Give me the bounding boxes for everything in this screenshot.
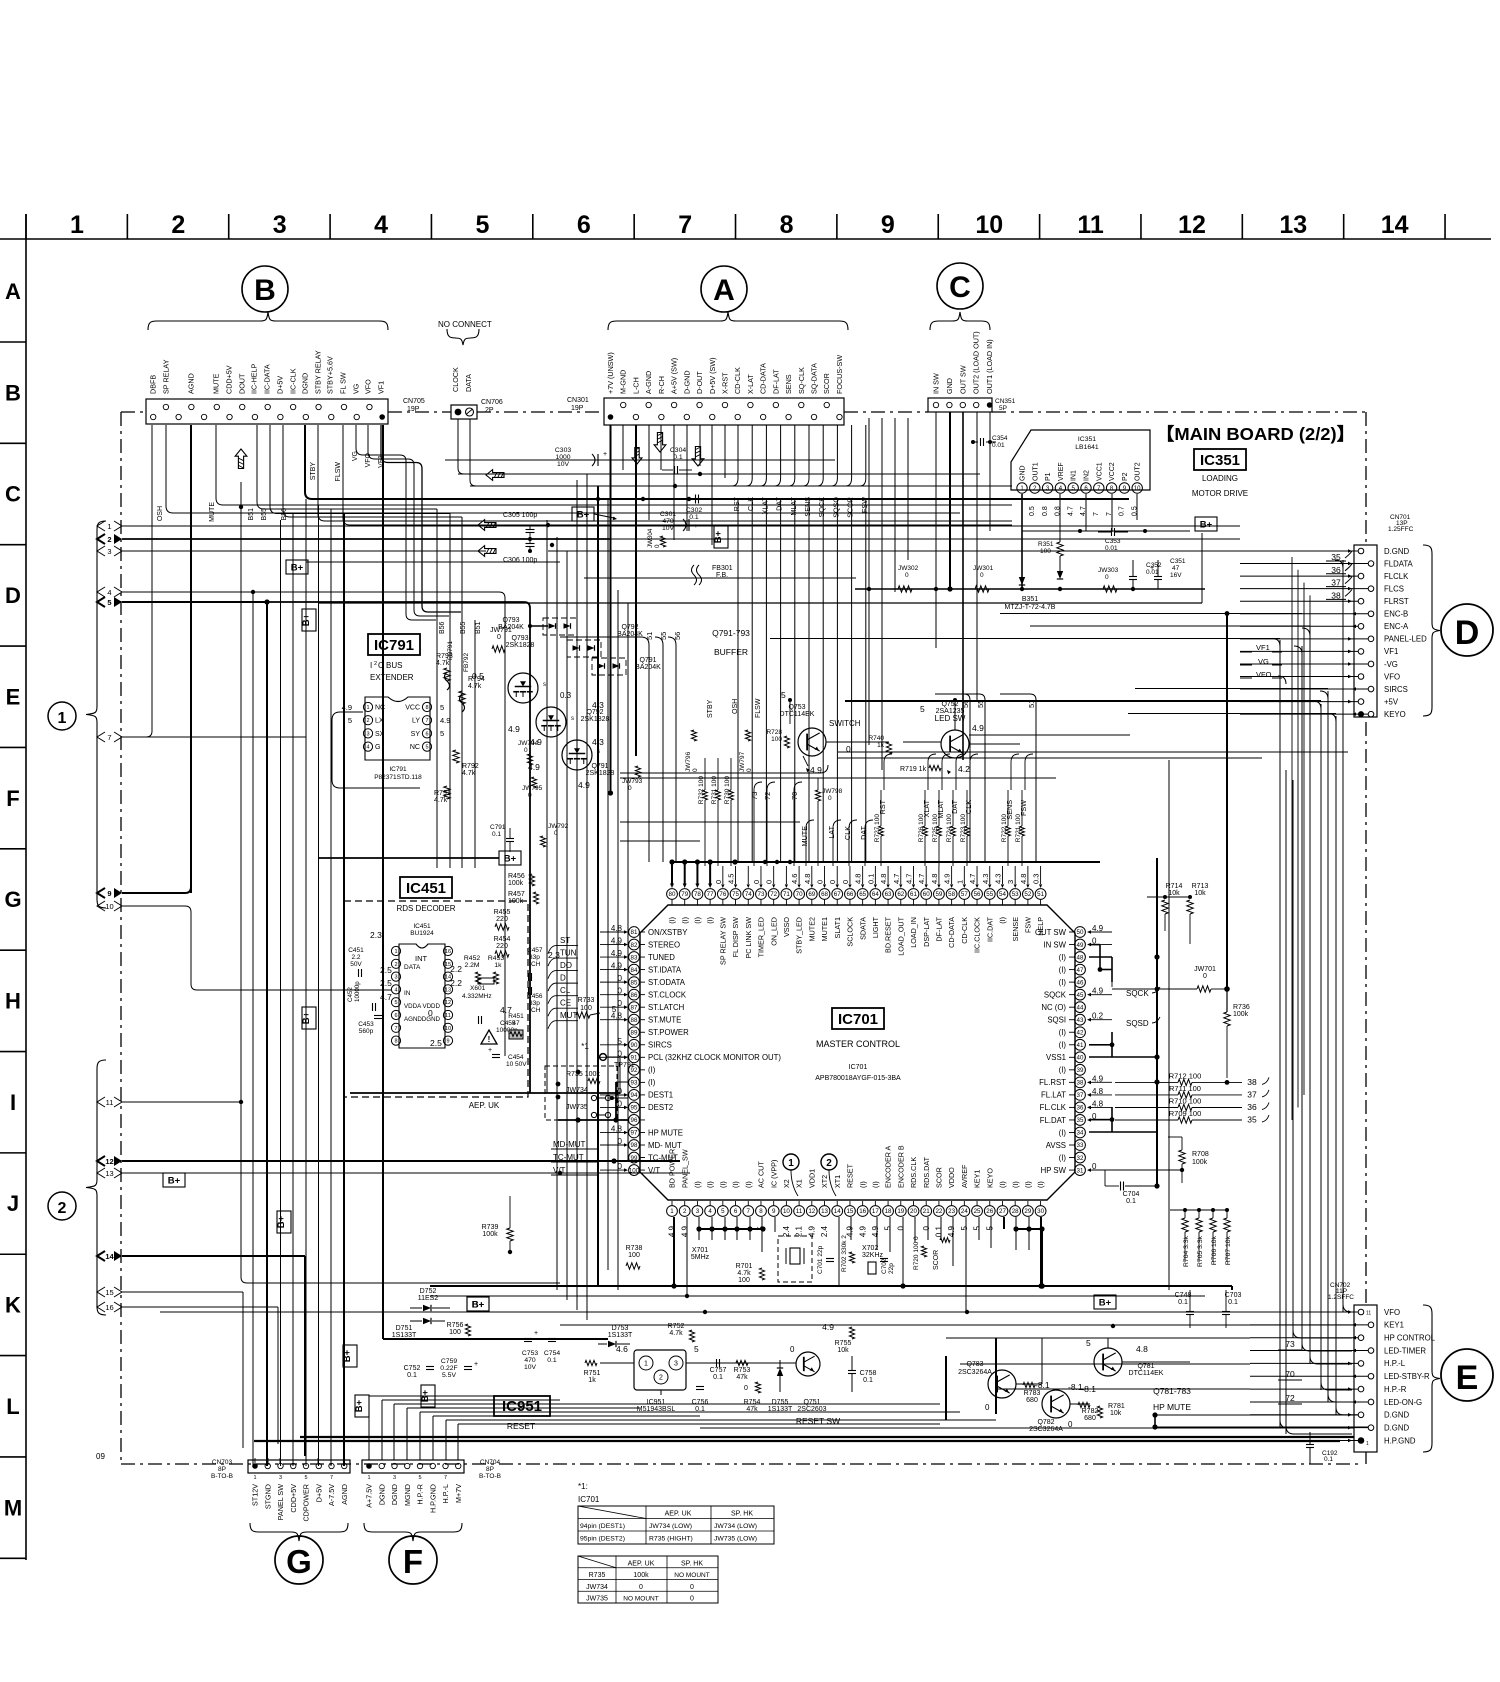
svg-text:CLK: CLK [843, 826, 852, 840]
connector CN701 [1354, 545, 1377, 717]
svg-text:C703: C703 [1225, 1292, 1242, 1299]
svg-text:SENS: SENS [1005, 800, 1014, 820]
svg-text:0.1: 0.1 [1126, 1198, 1136, 1205]
svg-text:HP MUTE: HP MUTE [648, 1128, 683, 1137]
svg-text:DTC114EK: DTC114EK [1129, 1370, 1164, 1377]
svg-text:7: 7 [107, 733, 111, 742]
svg-text:560p: 560p [359, 1028, 374, 1035]
svg-text:18: 18 [885, 1208, 892, 1215]
svg-text:K: K [5, 1293, 21, 1318]
svg-text:LIGHT: LIGHT [871, 916, 880, 938]
wire long horizontals 752 758 [838, 751, 1348, 753]
svg-text:CLK: CLK [964, 800, 973, 814]
svg-text:0.1: 0.1 [547, 1357, 557, 1364]
svg-text:(I): (I) [1059, 1041, 1067, 1050]
svg-text:12: 12 [105, 1157, 113, 1166]
wire D row horizontals [838, 550, 1358, 552]
svg-text:(I): (I) [1059, 1028, 1067, 1037]
svg-text:FL.CLK: FL.CLK [1040, 1103, 1067, 1112]
svg-text:BU1924: BU1924 [410, 930, 434, 937]
svg-text:R451: R451 [508, 1013, 524, 1020]
svg-text:0: 0 [639, 1584, 643, 1591]
svg-text:R752: R752 [668, 1323, 685, 1330]
wire E connector stubs [1250, 1311, 1358, 1313]
svg-text:R-CH: R-CH [657, 376, 666, 394]
wire buffer out verticals 51 55 56 [648, 645, 650, 862]
svg-text:680: 680 [1026, 1397, 1038, 1404]
svg-text:(I): (I) [858, 1181, 867, 1188]
wire IC451 bold nets [529, 1040, 531, 1093]
svg-text:4.9: 4.9 [943, 874, 952, 884]
svg-text:4.7: 4.7 [904, 874, 913, 884]
svg-text:DSP-LAT: DSP-LAT [922, 916, 931, 946]
wire top right verticals [868, 418, 870, 745]
svg-text:ST.LATCH: ST.LATCH [648, 1003, 684, 1012]
svg-text:DOUT: DOUT [238, 373, 247, 394]
svg-text:HP SW: HP SW [1041, 1166, 1067, 1175]
resistor bank R704-R707 [1182, 1218, 1188, 1232]
svg-text:1k: 1k [494, 962, 502, 969]
B+ box reset [467, 1297, 489, 1311]
svg-text:CL: CL [560, 986, 571, 995]
svg-text:2SC3264A: 2SC3264A [1029, 1426, 1063, 1433]
svg-text:6: 6 [577, 211, 591, 239]
svg-text:69: 69 [808, 891, 815, 898]
svg-text:1: 1 [1366, 1441, 1369, 1447]
svg-text:57: 57 [961, 891, 968, 898]
svg-text:100k: 100k [508, 898, 524, 905]
svg-text:MUT: MUT [560, 1011, 577, 1020]
svg-text:RDS.DAT: RDS.DAT [922, 1156, 931, 1188]
svg-text:D-OUT: D-OUT [695, 371, 704, 394]
wire IC351 pins down [1021, 494, 1023, 589]
svg-text:NO MOUNT: NO MOUNT [674, 1572, 709, 1579]
svg-text:85: 85 [631, 979, 638, 986]
svg-text:7: 7 [330, 1475, 333, 1481]
svg-text:MUTE: MUTE [800, 826, 809, 847]
svg-text:IN2: IN2 [1084, 470, 1091, 481]
node arrow 4 [97, 587, 105, 597]
svg-text:16: 16 [445, 949, 451, 955]
svg-text:16V: 16V [1170, 572, 1182, 579]
svg-text:IC451: IC451 [413, 923, 431, 930]
svg-text:60: 60 [923, 891, 930, 898]
svg-text:4: 4 [708, 1208, 712, 1215]
node arrow 7 [97, 732, 105, 742]
svg-text:2: 2 [374, 661, 377, 667]
svg-text:5: 5 [440, 703, 444, 712]
svg-text:(I): (I) [668, 917, 677, 924]
svg-text:IC (VPP): IC (VPP) [769, 1160, 778, 1188]
svg-text:IC701: IC701 [838, 1011, 878, 1028]
svg-text:0: 0 [841, 880, 850, 884]
svg-text:SCOR: SCOR [846, 497, 855, 518]
svg-text:MTZJ-T-72-4.7B: MTZJ-T-72-4.7B [1005, 604, 1056, 611]
svg-text:2: 2 [659, 1375, 663, 1382]
svg-text:CN706: CN706 [481, 399, 503, 406]
svg-text:13: 13 [105, 1169, 113, 1178]
svg-text:10: 10 [105, 902, 113, 911]
wire top pins bold rail [672, 861, 1100, 863]
svg-text:1.25FFC: 1.25FFC [1388, 526, 1414, 533]
svg-text:XT2: XT2 [820, 1175, 829, 1188]
svg-text:16: 16 [105, 1303, 113, 1312]
svg-text:7: 7 [1093, 512, 1100, 516]
wire VG VFO VF1 corners down [390, 454, 400, 456]
svg-text:5: 5 [348, 716, 352, 725]
connector CN702 [1354, 1305, 1377, 1452]
B+ box [163, 1173, 185, 1187]
svg-text:78: 78 [694, 891, 701, 898]
svg-text:RDS DECODER: RDS DECODER [396, 904, 455, 913]
svg-text:1: 1 [366, 705, 369, 711]
svg-text:26: 26 [986, 1208, 993, 1215]
svg-text:2.2: 2.2 [450, 964, 462, 974]
svg-text:55: 55 [986, 891, 993, 898]
wire riser CN703-2 bold [266, 602, 268, 1466]
svg-text:5MHz: 5MHz [691, 1254, 710, 1261]
svg-text:+7V (UNSW): +7V (UNSW) [606, 352, 615, 394]
svg-text:5: 5 [694, 1344, 699, 1354]
svg-text:R727 100: R727 100 [874, 814, 881, 843]
svg-text:CN705: CN705 [403, 398, 425, 405]
IC351 pins [1017, 483, 1027, 493]
svg-text:STEREO: STEREO [648, 940, 680, 949]
svg-text:R705 3.3k: R705 3.3k [1197, 1235, 1204, 1267]
svg-text:5.5V: 5.5V [442, 1372, 456, 1379]
svg-text:VDD1: VDD1 [807, 1169, 816, 1188]
svg-text:70: 70 [796, 891, 803, 898]
svg-text:JW797: JW797 [739, 751, 746, 772]
svg-text:37: 37 [1247, 1089, 1257, 1099]
svg-text:H.P.-R: H.P.-R [1384, 1385, 1407, 1394]
svg-text:VFO: VFO [364, 379, 373, 394]
svg-text:*1: *1 [581, 1042, 589, 1051]
svg-text:D+5V (SW): D+5V (SW) [708, 357, 717, 394]
svg-text:+: + [603, 451, 607, 458]
svg-text:XT1: XT1 [833, 1175, 842, 1188]
wire mid horizontals [620, 772, 820, 774]
svg-text:2: 2 [366, 718, 369, 724]
svg-text:84: 84 [631, 967, 638, 974]
svg-text:R712 100: R712 100 [1169, 1071, 1202, 1080]
svg-text:95: 95 [631, 1105, 638, 1112]
svg-text:IN SW: IN SW [1043, 940, 1066, 949]
svg-text:B51: B51 [248, 508, 255, 521]
wire IC701 bottom drops [673, 1217, 675, 1286]
svg-text:4.5: 4.5 [727, 874, 736, 884]
svg-text:6: 6 [425, 731, 428, 737]
svg-text:CE: CE [560, 999, 571, 1008]
svg-text:APB780018AYGF-015-3BA: APB780018AYGF-015-3BA [815, 1075, 901, 1082]
IC701 bottom pins 1-30 [667, 1206, 678, 1217]
svg-text:FL.RST: FL.RST [1039, 1078, 1066, 1087]
svg-text:ON/XSTBY: ON/XSTBY [648, 928, 688, 937]
zener diode D352 [1019, 577, 1025, 585]
svg-text:33: 33 [1077, 1142, 1084, 1149]
svg-text:DF-LAT: DF-LAT [771, 369, 780, 394]
svg-text:(I): (I) [1059, 1066, 1067, 1075]
svg-text:BD.RESET: BD.RESET [884, 916, 893, 953]
svg-text:31: 31 [1077, 1167, 1084, 1174]
svg-text:P1: P1 [1045, 472, 1052, 481]
board outline dash-dot left [120, 412, 122, 1464]
svg-text:8: 8 [759, 1208, 763, 1215]
svg-text:220: 220 [496, 943, 508, 950]
wire IC701 top pin stubs [671, 862, 673, 884]
svg-text:IC701: IC701 [849, 1064, 868, 1071]
svg-text:C354: C354 [992, 435, 1008, 442]
IC451 chip body [399, 944, 445, 1048]
svg-text:VCC1: VCC1 [1096, 462, 1103, 481]
svg-text:0: 0 [497, 634, 501, 641]
svg-text:64: 64 [872, 891, 879, 898]
wire bus vertical 191 bold [190, 425, 192, 893]
svg-text:R724 100: R724 100 [946, 814, 953, 843]
board outline dash-dot top segments [121, 411, 146, 413]
svg-text:0: 0 [524, 747, 528, 754]
svg-text:15: 15 [105, 1288, 113, 1297]
svg-text:4.9: 4.9 [680, 1225, 689, 1237]
B+ box vertical [343, 1345, 357, 1367]
svg-text:10: 10 [975, 211, 1003, 239]
svg-text:EXTENDER: EXTENDER [370, 673, 414, 682]
svg-text:R711 100: R711 100 [1169, 1084, 1201, 1093]
svg-text:LOADING: LOADING [1202, 474, 1238, 483]
svg-text:CN351: CN351 [995, 398, 1016, 405]
svg-text:FL SW: FL SW [339, 372, 348, 394]
diode pack Q791 BA204K [592, 658, 626, 675]
svg-text:D751: D751 [396, 1325, 413, 1332]
svg-text:LOAD_OUT: LOAD_OUT [896, 916, 905, 955]
svg-text:H.P.-R: H.P.-R [416, 1484, 425, 1505]
svg-text:63: 63 [885, 891, 892, 898]
svg-text:56: 56 [961, 700, 970, 708]
svg-text:4.6: 4.6 [790, 874, 799, 884]
IC791 label box [368, 634, 420, 655]
svg-text:CLK: CLK [746, 497, 755, 511]
svg-text:4: 4 [366, 745, 369, 751]
svg-text:Q793: Q793 [511, 635, 528, 642]
svg-text:100k: 100k [633, 1572, 649, 1579]
svg-text:4.7k: 4.7k [434, 797, 448, 804]
svg-text:6: 6 [394, 1013, 397, 1019]
svg-text:7: 7 [747, 1208, 751, 1215]
svg-text:5: 5 [973, 1225, 982, 1230]
svg-text:(I): (I) [1011, 1181, 1020, 1188]
svg-text:F: F [6, 786, 19, 811]
svg-text:RESET: RESET [507, 1421, 535, 1431]
svg-text:L-CH: L-CH [631, 377, 640, 394]
svg-text:2.1: 2.1 [795, 1225, 804, 1237]
svg-text:4.9: 4.9 [508, 724, 520, 734]
svg-text:43: 43 [1077, 1017, 1084, 1024]
svg-text:MOTOR DRIVE: MOTOR DRIVE [1192, 489, 1248, 498]
svg-text:(I): (I) [1059, 1128, 1067, 1137]
svg-text:1.2SFFC: 1.2SFFC [1328, 1294, 1354, 1301]
svg-text:JW701: JW701 [1194, 966, 1216, 973]
svg-text:71: 71 [783, 891, 790, 898]
svg-text:R707 10k: R707 10k [1225, 1235, 1232, 1265]
svg-text:67: 67 [834, 891, 841, 898]
svg-text:59: 59 [935, 891, 942, 898]
svg-text:41: 41 [1077, 1042, 1084, 1049]
svg-text:IN SW: IN SW [932, 373, 941, 394]
svg-text:KEY1: KEY1 [1384, 1321, 1404, 1330]
svg-text:SCLOCK: SCLOCK [846, 917, 855, 947]
svg-text:+: + [534, 1330, 538, 1337]
svg-text:R704 3.3k: R704 3.3k [1183, 1235, 1190, 1267]
svg-text:20: 20 [910, 1208, 917, 1215]
IC451 left pins [391, 946, 400, 955]
svg-text:220: 220 [496, 916, 508, 923]
svg-text:DATA: DATA [464, 374, 473, 392]
wire lower horizontals [700, 1427, 1354, 1429]
svg-text:R723 100: R723 100 [960, 814, 967, 843]
svg-text:10k: 10k [1110, 1410, 1122, 1417]
svg-text:CN301: CN301 [567, 397, 589, 404]
svg-text:OUT1: OUT1 [1032, 462, 1039, 481]
svg-text:0: 0 [744, 1385, 748, 1392]
svg-text:10000p: 10000p [354, 981, 361, 1002]
svg-text:A-GND: A-GND [644, 371, 653, 394]
svg-text:7: 7 [444, 1475, 447, 1481]
svg-text:R351: R351 [1038, 541, 1054, 548]
svg-text:0: 0 [985, 1403, 990, 1412]
svg-text:4.7: 4.7 [1067, 506, 1074, 516]
svg-text:C758: C758 [860, 1370, 877, 1377]
svg-text:Q782: Q782 [1037, 1419, 1054, 1426]
svg-text:C: C [949, 271, 971, 304]
svg-text:IC451: IC451 [406, 880, 446, 897]
svg-text:13: 13 [1279, 211, 1307, 239]
svg-text:40: 40 [1077, 1055, 1084, 1062]
svg-text:53: 53 [1012, 891, 1019, 898]
svg-text:4.3: 4.3 [993, 874, 1002, 884]
svg-text:R792: R792 [462, 763, 479, 770]
svg-text:23: 23 [948, 1208, 955, 1215]
section label B [242, 266, 288, 312]
wire Q752 Q753 links [826, 741, 889, 743]
svg-text:R753: R753 [734, 1367, 751, 1374]
svg-text:(I): (I) [1023, 1181, 1032, 1188]
svg-text:9: 9 [107, 889, 111, 898]
svg-text:H.P.-L: H.P.-L [1384, 1359, 1406, 1368]
svg-text:(I): (I) [693, 1181, 702, 1188]
svg-text:B+: B+ [1099, 1297, 1112, 1308]
svg-text:29: 29 [1024, 1208, 1031, 1215]
svg-text:4.8: 4.8 [1136, 1344, 1148, 1354]
warning triangle [481, 1030, 497, 1044]
svg-text:5: 5 [1086, 1338, 1091, 1348]
wire CN704 risers [368, 1396, 370, 1460]
svg-text:B+: B+ [1200, 519, 1213, 530]
svg-text:1: 1 [955, 880, 964, 884]
svg-text:C702: C702 [881, 1258, 888, 1274]
svg-text:SENS: SENS [803, 497, 812, 517]
svg-text:6: 6 [734, 1208, 738, 1215]
svg-text:0: 0 [1203, 973, 1207, 980]
svg-text:V/T: V/T [648, 1166, 660, 1175]
B+ box 2 [714, 526, 728, 548]
svg-text:R751: R751 [584, 1370, 601, 1377]
svg-text:3: 3 [393, 1475, 396, 1481]
svg-text:81: 81 [631, 929, 638, 936]
B+ box [499, 851, 521, 865]
svg-text:MUTE1: MUTE1 [820, 917, 829, 941]
svg-text:IIC-DATA: IIC-DATA [263, 364, 272, 394]
svg-text:58: 58 [948, 891, 955, 898]
svg-text:R735 100k: R735 100k [566, 1071, 600, 1078]
svg-text:RDS.CLK: RDS.CLK [909, 1157, 918, 1188]
svg-text:2.4: 2.4 [782, 1225, 791, 1237]
svg-text:42: 42 [1077, 1029, 1084, 1036]
svg-text:VDDO: VDDO [947, 1167, 956, 1188]
svg-text:CN703: CN703 [212, 1459, 233, 1466]
svg-text:NO CONNECT: NO CONNECT [438, 320, 492, 329]
svg-text:2.2: 2.2 [450, 978, 462, 988]
svg-text:36: 36 [1247, 1102, 1257, 1112]
svg-text:SY: SY [411, 731, 421, 738]
svg-text:STBY: STBY [310, 462, 317, 481]
svg-text:3: 3 [107, 547, 111, 556]
svg-text:D+5V: D+5V [276, 376, 285, 394]
IC951 label box [494, 1396, 550, 1416]
svg-text:DF-LAT: DF-LAT [935, 916, 944, 941]
svg-text:13: 13 [445, 987, 451, 993]
svg-text:32: 32 [1077, 1155, 1084, 1162]
svg-text:IIC-HELP: IIC-HELP [250, 363, 259, 394]
svg-text:CH: CH [531, 961, 541, 968]
svg-text:4.7k: 4.7k [737, 1270, 751, 1277]
wire right long verticals [1168, 760, 1170, 1290]
svg-text:3: 3 [1006, 880, 1015, 884]
svg-text:LOAD_IN: LOAD_IN [909, 917, 918, 948]
svg-text:4.9: 4.9 [807, 1225, 816, 1237]
svg-text:LED-TIMER: LED-TIMER [1384, 1346, 1426, 1355]
wire riser CN703-6 [318, 505, 320, 1466]
IC951 chip [634, 1350, 686, 1390]
node circle 2 above pin XT1 [821, 1154, 837, 1170]
svg-text:77: 77 [707, 891, 714, 898]
svg-text:I: I [370, 661, 372, 670]
svg-text:SIRCS: SIRCS [648, 1041, 672, 1050]
hatched arrows near CN301 [632, 448, 642, 465]
svg-text:7: 7 [678, 211, 692, 239]
svg-text:STBY: STBY [707, 699, 714, 718]
svg-text:35: 35 [1247, 1115, 1257, 1125]
svg-text:27: 27 [999, 1208, 1006, 1215]
svg-text:8P: 8P [218, 1466, 226, 1473]
svg-text:100k: 100k [508, 880, 524, 887]
svg-text:IC951: IC951 [647, 1399, 666, 1406]
svg-text:(I): (I) [1036, 1181, 1045, 1188]
svg-text:4.332MHz: 4.332MHz [462, 993, 492, 1000]
wire B51 net [256, 425, 258, 502]
svg-text:CDD+5V: CDD+5V [289, 1484, 298, 1513]
svg-text:SCOR: SCOR [822, 373, 831, 394]
svg-text:SCOR: SCOR [933, 1250, 940, 1270]
svg-text:470: 470 [524, 1357, 536, 1364]
svg-text:H: H [5, 989, 21, 1014]
svg-text:66: 66 [846, 891, 853, 898]
svg-text:B55: B55 [460, 621, 467, 634]
svg-text:FB792: FB792 [463, 652, 470, 672]
svg-text:VREF: VREF [1058, 462, 1065, 481]
svg-text:C701 22p: C701 22p [817, 1245, 824, 1274]
svg-text:ST12V: ST12V [251, 1484, 260, 1506]
svg-text:2.5: 2.5 [430, 1038, 442, 1048]
